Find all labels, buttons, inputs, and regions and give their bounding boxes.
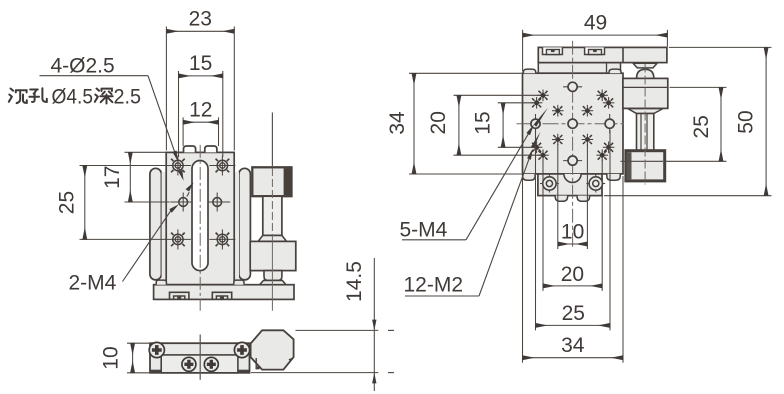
svg-text:4-Ø2.5: 4-Ø2.5 [51, 55, 115, 78]
svg-text:20: 20 [561, 263, 584, 286]
svg-text:15: 15 [189, 52, 212, 75]
counterbore hole top-right [209, 156, 235, 176]
central slot [192, 161, 208, 271]
svg-text:10: 10 [561, 221, 584, 244]
dimension 12 [183, 98, 218, 146]
glyph chen [9, 89, 13, 102]
counterbore hole bottom-left [165, 229, 191, 249]
leader 12-M2 [405, 132, 541, 296]
bump under left rail [156, 280, 166, 285]
plate bottom bump left [523, 174, 536, 180]
svg-text:12: 12 [189, 98, 212, 121]
micrometer stem (top view) [637, 114, 654, 151]
knob octagon (side) [251, 330, 294, 369]
svg-text:25: 25 [56, 191, 79, 214]
svg-text:15: 15 [472, 111, 495, 134]
dimension 15 [179, 52, 223, 157]
svg-text:20: 20 [427, 111, 450, 134]
carriage block [166, 152, 234, 284]
dimension 14.5 [251, 258, 394, 391]
M2 hole 3 [531, 97, 543, 109]
plate vertical centerline [572, 41, 574, 247]
plate top bump right [609, 69, 621, 73]
dimension 50 [604, 47, 772, 195]
M2 hole 10 [603, 142, 615, 154]
M2 hole 11 [537, 149, 549, 161]
micrometer knob (front view) [252, 167, 291, 196]
bracket ring screw right [586, 175, 605, 193]
svg-text:34: 34 [561, 334, 585, 357]
leader 4-d2.5 [40, 76, 184, 181]
micrometer stem [263, 196, 282, 235]
screw top-right [234, 342, 249, 357]
top bump left [184, 146, 196, 152]
side view centerline [199, 335, 201, 380]
bump under right rail [234, 280, 244, 285]
label counterbore (Chinese) [9, 88, 113, 103]
dimension 25 bottom [536, 130, 611, 330]
screw mid-right [204, 357, 218, 371]
M4 hole center [568, 119, 577, 128]
base plate [154, 285, 294, 300]
dark corner left [151, 370, 162, 373]
clamp strip under top bar [538, 63, 620, 74]
dimension 34 bottom [523, 176, 624, 363]
dimension 10 bottom [558, 144, 588, 249]
svg-text:25: 25 [690, 115, 713, 138]
dark corner right [238, 370, 249, 373]
micrometer bracket block [250, 241, 296, 270]
micrometer dome [637, 69, 654, 78]
top bar [538, 47, 667, 62]
side view body [150, 343, 250, 373]
M2 hole 12 [596, 149, 608, 161]
M4 hole top-center [563, 82, 582, 91]
micrometer upper extension line [271, 113, 273, 167]
M2 hole 7 [552, 134, 564, 146]
svg-text:34: 34 [386, 111, 409, 135]
M4 hole right [605, 114, 614, 133]
dimension 17 [101, 152, 170, 202]
bracket bump left [555, 196, 567, 202]
svg-text:2.5: 2.5 [114, 85, 142, 108]
knurled knob (top view) [626, 151, 665, 181]
M2 hole 8 [582, 134, 594, 146]
base notch 2 [212, 292, 231, 299]
M4 hole bottom-center [563, 156, 582, 165]
svg-text:Ø4.5: Ø4.5 [52, 85, 94, 108]
M4 hole middle-left [170, 193, 192, 212]
screw top-left [149, 342, 164, 357]
bracket bump right [577, 196, 590, 202]
glyph kong [29, 90, 39, 102]
svg-text:17: 17 [101, 166, 124, 189]
leader 5-M4 [402, 108, 548, 240]
svg-text:23: 23 [189, 8, 212, 31]
svg-text:12-M2: 12-M2 [404, 273, 464, 296]
plate bottom bump right [607, 174, 620, 180]
stage plate [523, 73, 624, 174]
dimension 23 [166, 8, 234, 151]
M2 hole 2 [596, 90, 608, 102]
glyph shen [95, 89, 99, 102]
svg-text:10: 10 [100, 346, 123, 369]
dimension 20 left [427, 95, 540, 155]
M2 hole 5 [552, 105, 564, 117]
dimension 25 right [665, 87, 727, 161]
counterbore hole top-left [165, 156, 191, 176]
micrometer flare (top view) [628, 109, 663, 114]
M2 hole 6 [582, 105, 594, 117]
svg-text:25: 25 [562, 302, 585, 325]
octagon detail mark [256, 358, 293, 369]
dimension 10 side [100, 343, 149, 373]
bar notch 2 [585, 47, 605, 54]
counterbore hole bottom-right [209, 229, 235, 249]
M2 hole 4 [603, 97, 615, 109]
svg-text:5-M4: 5-M4 [400, 219, 448, 242]
dimension 49 [523, 11, 668, 71]
svg-text:14.5: 14.5 [343, 261, 366, 302]
dimension 20 bottom [543, 160, 602, 291]
top bump right [205, 146, 217, 152]
M2 hole 9 [531, 142, 543, 154]
rail gap fills [162, 172, 167, 282]
bar notch 1 [543, 47, 563, 54]
micrometer axis centerline [644, 64, 646, 185]
bracket inner line [623, 86, 668, 88]
plate horizontal centerline [517, 123, 624, 125]
svg-text:50: 50 [735, 110, 758, 133]
screw mid-left [182, 357, 196, 371]
bracket U notch [564, 174, 581, 183]
micrometer foot cylinder [264, 271, 282, 281]
micrometer centerline [271, 168, 273, 240]
stem flare [258, 235, 287, 241]
micrometer pad (top view) [633, 63, 657, 68]
M2 hole 1 [537, 90, 549, 102]
M4 hole left [531, 114, 540, 133]
dimension 34 left [386, 73, 521, 174]
ext line through knob for dim 25 [621, 160, 664, 162]
right rail [239, 168, 251, 280]
M4 hole middle-right [208, 193, 230, 212]
bottom bracket [538, 174, 602, 196]
base notch 1 [170, 292, 189, 299]
side view inner plate [161, 355, 238, 373]
dimension 15 left [472, 103, 534, 148]
foot pad [260, 280, 286, 284]
dimension 25 left [56, 166, 166, 240]
svg-text:49: 49 [584, 11, 607, 34]
left rail [150, 168, 162, 280]
plate top bump left [523, 69, 535, 73]
svg-text:2-M4: 2-M4 [69, 272, 117, 295]
leader 2-M4 [123, 182, 194, 281]
view centerline vertical [199, 145, 201, 311]
bracket ring screw left [540, 175, 559, 193]
micrometer bracket (top view) [623, 78, 668, 108]
